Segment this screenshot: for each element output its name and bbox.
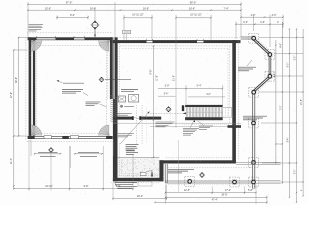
post 269,76 — [268, 74, 272, 78]
house right wall — [230, 40, 239, 163]
svg-text:30'-8": 30'-8" — [221, 194, 227, 197]
svg-text:21'-4": 21'-4" — [10, 158, 13, 164]
bottom right note — [115, 182, 152, 187]
section marker top — [91, 21, 99, 29]
svg-text:7'-0": 7'-0" — [280, 106, 282, 111]
interior wall A — [113, 116, 161, 120]
door tag above wall — [123, 30, 131, 40]
pier pad 253,38 — [249, 33, 259, 43]
garage left wall — [29, 37, 37, 139]
porch top edge — [241, 37, 254, 39]
right rotated labels — [274, 43, 303, 174]
svg-text:16'-6": 16'-6" — [189, 7, 195, 10]
party wall dashes — [108, 40, 120, 120]
window ticks — [37, 36, 204, 40]
slab leader note — [111, 182, 161, 188]
svg-text:4'-6": 4'-6" — [272, 14, 277, 17]
svg-text:11'-8": 11'-8" — [155, 75, 158, 81]
porch bay diagonal 1 — [253, 38, 271, 55]
post 234,182 — [233, 180, 237, 184]
right dim verticals — [276, 22, 303, 202]
svg-text:9'-8": 9'-8" — [116, 185, 121, 188]
svg-text:8'-0": 8'-0" — [70, 14, 75, 17]
svg-text:16'-6": 16'-6" — [90, 7, 96, 10]
svg-text:4'-6": 4'-6" — [274, 73, 276, 78]
post 253,92 — [252, 90, 256, 94]
garage top wall — [28, 37, 113, 40]
garage outside dashed lines — [26, 33, 113, 142]
porch note rows — [168, 169, 194, 173]
svg-text:3'-0": 3'-0" — [295, 170, 297, 175]
svg-text:9'-8": 9'-8" — [84, 185, 89, 188]
garage door dim — [31, 140, 114, 191]
utility note — [121, 90, 138, 92]
garage footing dashed rect — [34, 46, 107, 134]
garage bottom wall — [28, 136, 113, 139]
protrusion bottom wall — [113, 178, 164, 182]
long diagonal leader — [120, 111, 150, 144]
pier pad 269,76 — [265, 71, 275, 81]
svg-text:21'-8": 21'-8" — [173, 75, 175, 81]
svg-text:4'-6": 4'-6" — [260, 21, 265, 24]
svg-text:4'-3": 4'-3" — [243, 21, 248, 24]
bottom ext verticals right — [165, 185, 267, 204]
svg-text:4'-6": 4'-6" — [251, 14, 256, 17]
pier pad 253,162 — [249, 158, 259, 168]
svg-text:17'-2": 17'-2" — [225, 189, 231, 192]
svg-text:27'-8": 27'-8" — [10, 92, 13, 98]
utility boxes — [118, 95, 139, 102]
garage notes — [57, 80, 84, 83]
garage door labels — [38, 152, 99, 156]
protrusion note text — [126, 151, 138, 155]
post 189,181 — [188, 180, 192, 184]
pier pad 189,181 — [185, 177, 195, 187]
dashed verticals center — [137, 105, 147, 145]
bottom right tier A — [165, 189, 257, 194]
notes below stairs — [156, 120, 233, 192]
svg-text:4'-6": 4'-6" — [280, 43, 282, 48]
porch bay right edge — [269, 55, 271, 77]
porch interior dashed — [168, 168, 252, 185]
svg-text:4": 4" — [301, 189, 303, 191]
porch ext lines right of house — [236, 162, 281, 183]
pier pad 234,182 — [230, 177, 240, 187]
porch lower note — [243, 116, 267, 120]
svg-text:37'-0": 37'-0" — [66, 0, 73, 4]
svg-text:18'-4": 18'-4" — [137, 195, 143, 198]
top-left note block — [29, 25, 43, 31]
svg-text:5'-4": 5'-4" — [164, 94, 169, 96]
notes mid-left room — [118, 134, 134, 137]
bottom right tier B — [165, 194, 268, 199]
svg-text:10'-10 1/2": 10'-10 1/2" — [190, 14, 202, 17]
bottom dim left tier — [13, 140, 134, 191]
note rows above wall A — [117, 114, 132, 116]
house top wall — [113, 38, 241, 46]
post 269,54 — [268, 53, 272, 57]
porch top dims — [235, 14, 284, 47]
post 253,123 — [252, 121, 256, 125]
stair marker — [166, 107, 172, 113]
dimension tier 2 top — [27, 7, 242, 11]
svg-text:4'-0": 4'-0" — [206, 94, 211, 96]
protrusion interior stipple — [118, 143, 160, 178]
svg-text:6'-0": 6'-0" — [288, 63, 290, 68]
pier pad 269,54 — [265, 50, 275, 60]
svg-text:21'-8": 21'-8" — [301, 99, 303, 105]
dimension tier 1 top — [27, 0, 242, 5]
party wall marker — [105, 79, 131, 81]
pier pad 253,92 — [249, 87, 259, 97]
post 253,38 — [252, 36, 256, 40]
dimension 10-10 right — [175, 14, 212, 40]
svg-text:16'-6": 16'-6" — [143, 7, 149, 10]
porch marker — [199, 172, 204, 177]
porch right edge — [253, 92, 255, 189]
svg-text:10'-6": 10'-6" — [45, 7, 51, 10]
small rotated label bottom right — [253, 187, 303, 191]
scan speckle — [8, 4, 300, 200]
note bottom text block mid — [126, 145, 139, 150]
svg-text:5'-4": 5'-4" — [197, 85, 202, 88]
garage corner pads — [31, 41, 109, 136]
svg-text:12'-6": 12'-6" — [184, 189, 190, 192]
pier pad 253,123 — [249, 118, 259, 128]
dimension 10-10 left — [123, 14, 153, 40]
svg-text:7'-4": 7'-4" — [224, 7, 229, 10]
post 253,182 — [252, 180, 256, 184]
svg-text:3'-0": 3'-0" — [165, 85, 170, 88]
stair rail dashed — [150, 112, 186, 114]
svg-text:10'-10": 10'-10" — [45, 185, 53, 188]
party wall hatch — [110, 96, 117, 124]
house footing dashed — [122, 49, 228, 117]
stair landing — [223, 108, 232, 118]
porch left edge — [165, 164, 167, 183]
porch right note — [238, 60, 256, 71]
svg-text:9'-8": 9'-8" — [150, 69, 153, 74]
house bottom wall right section — [159, 160, 236, 163]
protrusion right wall — [159, 160, 163, 181]
protrusion door tag — [140, 170, 153, 177]
porch bay diagonal 2 — [253, 76, 271, 93]
dimension 8-0 garage window — [56, 14, 89, 19]
bottom right tier C — [154, 199, 268, 204]
right dim stubs — [258, 28, 304, 203]
svg-text:9'-2": 9'-2" — [295, 56, 297, 61]
room label center — [120, 105, 134, 107]
left dim lines — [10, 37, 28, 189]
top extension lines — [28, 2, 241, 40]
stair dim above — [158, 40, 225, 128]
svg-text:56'-0": 56'-0" — [190, 0, 197, 4]
svg-text:10'-10 1/2": 10'-10 1/2" — [132, 14, 144, 17]
svg-text:47'-4": 47'-4" — [212, 199, 218, 202]
interior vertical dim — [150, 45, 159, 158]
stairs — [185, 105, 223, 120]
svg-text:32'-8": 32'-8" — [15, 77, 18, 83]
post 253,162 — [252, 161, 256, 165]
bottom 18-4 tier — [112, 183, 167, 201]
interior thin lines — [113, 123, 241, 128]
party wall — [110, 37, 118, 181]
porch bottom edge — [165, 181, 255, 183]
pier pad 253,182 — [249, 177, 259, 187]
garage door marker — [48, 147, 53, 152]
